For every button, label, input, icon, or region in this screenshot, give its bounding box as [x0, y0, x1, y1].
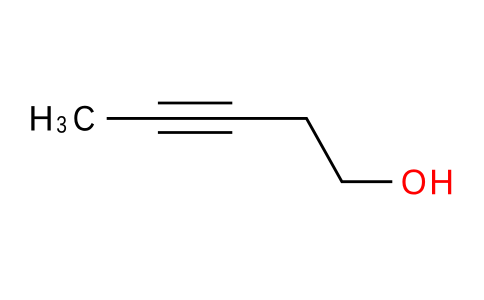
triple bond upper parallel line — [158, 102, 232, 105]
bond skeleton: C1-C2 bond, triple-bond center line, C3-C4 bond, C4-O bond — [107, 118, 393, 181]
methyl label H3C : letter C — [74, 106, 94, 131]
triple bond lower parallel line — [158, 131, 232, 134]
methyl label H3C : letter H — [31, 106, 50, 130]
methyl label H3C : subscript 3 — [57, 116, 66, 133]
hydroxyl label OH : letter O — [402, 169, 425, 194]
hydroxyl label OH : letter H — [432, 170, 451, 194]
